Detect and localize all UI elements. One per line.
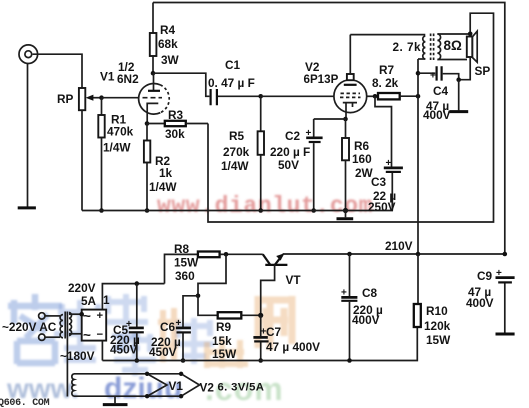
wire secondary bottom to rectifier <box>69 333 82 335</box>
svg-text:210V: 210V <box>385 239 413 253</box>
wire secondary top to speaker <box>437 33 470 35</box>
svg-text:6. 3V/5A: 6. 3V/5A <box>218 382 265 394</box>
svg-text:~220V AC: ~220V AC <box>2 320 57 334</box>
svg-text:270k: 270k <box>223 145 250 159</box>
watermark blue char G4 <box>174 318 214 364</box>
node C6 bus <box>181 358 186 363</box>
svg-text:450V: 450V <box>110 343 138 357</box>
svg-text:R5: R5 <box>229 129 245 143</box>
node R8 / VT collector <box>224 252 229 257</box>
210V rail <box>283 253 505 255</box>
capacitor C9 <box>466 268 515 334</box>
V1 plate lead and bar <box>153 73 155 90</box>
capacitor C6 <box>149 296 198 361</box>
V2 grid g1 dashes <box>341 92 361 94</box>
svg-text:30k: 30k <box>165 127 185 141</box>
svg-text:C3: C3 <box>371 175 387 189</box>
node C5 top <box>135 281 140 286</box>
svg-text:400V: 400V <box>352 313 380 327</box>
wire RP bottom to bus <box>81 110 83 210</box>
wire speaker bottom to C4 node <box>459 57 471 80</box>
node speaker top <box>468 32 473 37</box>
RP wiper arrowhead <box>86 95 94 101</box>
resistor R10 <box>414 254 451 347</box>
node C1 / R5 / V2 grid <box>258 94 263 99</box>
node V1 plate <box>151 71 156 76</box>
svg-text:C2: C2 <box>285 129 301 143</box>
svg-text:15W: 15W <box>212 347 237 361</box>
svg-text:+: + <box>176 318 182 329</box>
node C8 bus <box>347 358 352 363</box>
node R1 bus <box>99 208 104 213</box>
V1 grid dashes <box>143 97 163 99</box>
node R2 bus <box>145 208 150 213</box>
svg-text:400V: 400V <box>423 108 451 122</box>
svg-text:SP: SP <box>475 64 491 78</box>
node rail C8 <box>347 252 352 257</box>
svg-text:−: − <box>97 329 104 341</box>
node secondary top <box>79 312 84 317</box>
wire jack to RP top <box>33 54 82 88</box>
resistor R4 <box>150 3 180 74</box>
watermark blue char G5 <box>114 332 156 376</box>
wire secondary top to rectifier <box>69 313 82 315</box>
svg-text:R4: R4 <box>160 23 176 37</box>
svg-text:2. 7k: 2. 7k <box>393 40 422 54</box>
wire feedback R3 to speaker top <box>208 13 494 222</box>
node V2 cathode / C2 / R6 <box>343 117 348 122</box>
input jack J1 <box>19 45 38 64</box>
V2 cathode <box>343 103 357 107</box>
svg-text:0. 47 µ F: 0. 47 µ F <box>208 76 255 90</box>
wire cathode to C2 <box>314 118 346 120</box>
node C6 / R9 <box>196 294 201 299</box>
node g2 / R7 / C3 <box>373 94 378 99</box>
svg-text:8Ω: 8Ω <box>444 38 463 53</box>
rectifier bridge <box>82 309 107 343</box>
svg-text:~: ~ <box>83 328 91 343</box>
node RP wiper / R1 / V1 grid <box>99 95 104 100</box>
triode V1 (1/2 6N2) <box>100 60 169 124</box>
svg-text:R8: R8 <box>174 242 190 256</box>
node rail R10 <box>416 252 421 257</box>
svg-text:C7: C7 <box>266 325 282 339</box>
svg-text:15W: 15W <box>426 333 451 347</box>
resistor R9 <box>198 296 261 361</box>
resistor R3 <box>147 108 208 141</box>
svg-text:+: + <box>496 268 502 279</box>
capacitor C7 <box>253 315 320 360</box>
node V1 cathode / R3 / R2 <box>145 121 150 126</box>
node C4 / speaker gnd <box>456 77 461 82</box>
svg-text:15k: 15k <box>212 334 232 348</box>
V1 cathode <box>147 103 158 123</box>
svg-text:47 µ 400V: 47 µ 400V <box>266 340 320 354</box>
capacitor C2 <box>270 119 323 211</box>
heater winding 6.3V <box>72 374 74 396</box>
svg-text:3W: 3W <box>161 53 180 67</box>
resistor R6 <box>342 119 374 211</box>
svg-text:400V: 400V <box>466 296 494 310</box>
node heater dots <box>145 372 149 376</box>
wire V2 grid <box>261 95 334 97</box>
svg-text:220 µ F: 220 µ F <box>270 145 310 159</box>
svg-text:V2: V2 <box>200 381 215 395</box>
wire jack to ground <box>27 64 29 207</box>
resistor R5 <box>221 96 264 210</box>
svg-text:C9: C9 <box>477 269 493 283</box>
watermark orange char O3 <box>256 296 294 350</box>
svg-text:360: 360 <box>175 269 195 283</box>
resistor R8 <box>165 242 227 284</box>
svg-text:R3: R3 <box>168 108 184 122</box>
capacitor C1 <box>153 58 261 105</box>
node rail C9 <box>503 252 508 257</box>
watermark blue char G2 <box>54 300 106 360</box>
capacitor C8 <box>341 254 383 361</box>
node C4 tap <box>416 71 421 76</box>
watermark orange char O1 <box>158 308 180 362</box>
heater chevron V2 <box>181 374 199 396</box>
svg-text:C6: C6 <box>160 320 176 334</box>
svg-text:6P13P: 6P13P <box>304 73 339 86</box>
svg-text:+: + <box>306 128 312 139</box>
svg-text:1/4W: 1/4W <box>103 141 131 155</box>
V2 top cap <box>347 74 354 80</box>
svg-text:6N2: 6N2 <box>117 72 139 86</box>
ground (R6/C2 bus) <box>337 211 354 219</box>
watermark blue char G3 <box>104 294 148 352</box>
svg-text:V1: V1 <box>169 379 184 393</box>
node C2 bus <box>311 208 316 213</box>
svg-text:C8: C8 <box>362 286 378 300</box>
wire top section ground bus <box>82 210 393 212</box>
svg-text:R6: R6 <box>354 139 370 153</box>
bottom bus <box>102 327 417 361</box>
wire OPT primary bottom to B+ column <box>418 58 425 60</box>
svg-text:Q606. COM: Q606. COM <box>0 398 50 408</box>
svg-text:RP: RP <box>57 92 74 106</box>
svg-text:450V: 450V <box>149 345 177 359</box>
wire V2 g2 to R7 <box>367 95 378 97</box>
wire heater top <box>74 373 181 375</box>
svg-text:R9: R9 <box>216 320 232 334</box>
svg-text:1/4W: 1/4W <box>221 159 249 173</box>
node R6 ground <box>343 208 348 213</box>
wire grid V1 <box>102 97 139 99</box>
speaker SP <box>467 31 491 78</box>
T1 core <box>64 312 66 339</box>
svg-text:8. 2k: 8. 2k <box>372 76 399 90</box>
wire heater bottom <box>74 395 181 397</box>
capacitor C5 <box>110 284 144 361</box>
node VT base / R9 / C7 <box>258 313 263 318</box>
svg-text:220V: 220V <box>68 281 96 295</box>
ground (input jack) <box>18 206 36 209</box>
wire rectifier + to R8 <box>102 284 164 310</box>
node C5 bus <box>135 358 140 363</box>
wire secondary bottom to speaker <box>437 59 467 61</box>
capacitor C4 <box>418 66 459 122</box>
wire mains to primary lower <box>45 336 60 338</box>
resistor R7 <box>372 63 418 99</box>
ground (heater CT) <box>103 396 128 404</box>
potentiometer RP <box>79 88 85 110</box>
heater chevron V1 <box>147 374 167 396</box>
wire rectifier minus to bottom bus <box>101 341 103 361</box>
svg-text:V2: V2 <box>305 60 320 74</box>
node R5 bus <box>258 208 263 213</box>
ground (C4) <box>450 80 469 112</box>
power transformer T1 primary <box>60 315 63 338</box>
svg-text:160: 160 <box>352 152 372 166</box>
svg-text:1: 1 <box>103 293 110 307</box>
svg-text:C4: C4 <box>433 84 449 98</box>
svg-text:50V: 50V <box>278 158 299 172</box>
wire mains to primary <box>45 315 60 317</box>
V2 grid g2 dashes <box>340 96 361 98</box>
svg-text:470k: 470k <box>107 125 134 139</box>
svg-text:+: + <box>341 288 347 299</box>
resistor R2 <box>144 124 177 211</box>
svg-text:R7: R7 <box>379 63 395 77</box>
svg-text:+: + <box>386 158 392 169</box>
svg-text:1k: 1k <box>159 166 173 180</box>
capacitor C3 <box>368 96 403 214</box>
wire RP wiper <box>89 97 102 99</box>
svg-text:~180V: ~180V <box>60 349 95 363</box>
svg-text:15W: 15W <box>174 256 199 270</box>
svg-text:1/4W: 1/4W <box>149 180 177 194</box>
node R7 right / B+ column <box>416 94 421 99</box>
resistor R1 <box>98 98 133 211</box>
svg-text:C1: C1 <box>225 58 241 72</box>
watermark blue char G1 <box>8 294 62 364</box>
transistor VT <box>226 253 301 315</box>
top bus B+ <box>153 3 505 255</box>
wire V2 plate to OPT primary <box>350 34 425 36</box>
V2 plate bar <box>344 84 357 86</box>
svg-text:~: ~ <box>83 309 91 324</box>
OPT core <box>431 34 434 61</box>
svg-text:250V: 250V <box>368 200 396 214</box>
wire B+ column <box>417 59 419 254</box>
output transformer T2 secondary 8ohm <box>437 34 440 60</box>
svg-text:www.dianlut.com: www.dianlut.com <box>157 193 373 219</box>
mains input terminals <box>2 313 57 341</box>
output transformer T2 primary 2.7k <box>423 36 426 59</box>
svg-text:5A: 5A <box>81 294 97 308</box>
svg-text:+: + <box>430 71 436 82</box>
pentode V2 (6P13P) <box>304 35 367 119</box>
svg-text:120k: 120k <box>424 319 451 333</box>
power transformer T1 secondary <box>69 313 72 336</box>
svg-text:R10: R10 <box>426 304 448 318</box>
watermark orange char O2 <box>204 338 248 368</box>
svg-text:VT: VT <box>286 273 302 287</box>
svg-text:V1: V1 <box>100 70 115 84</box>
svg-text:+: + <box>97 310 104 322</box>
wire R8 node to R9/C6 node <box>198 254 226 295</box>
node C7 bus <box>258 358 263 363</box>
svg-text:68k: 68k <box>158 37 178 51</box>
